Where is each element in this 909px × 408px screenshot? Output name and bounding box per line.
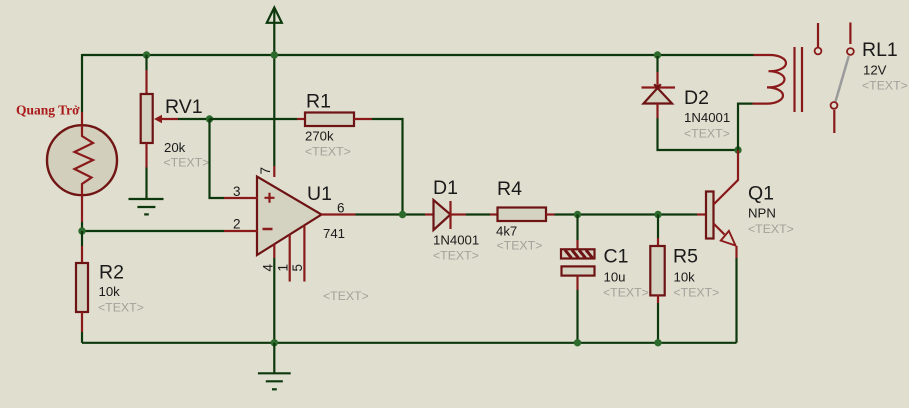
op-amp U1 (224, 166, 356, 282)
svg-text:741: 741 (323, 226, 345, 241)
wire wiper to node B (206, 118, 210, 120)
capacitor C1 (561, 215, 595, 343)
node rail-RV1 (143, 51, 150, 58)
ground bottom (258, 343, 291, 390)
wire pin4 to bottom rail (273, 258, 275, 343)
node collector (734, 146, 741, 153)
svg-text:1: 1 (276, 264, 291, 272)
wire bottom rail (82, 342, 737, 344)
svg-text:1N4001: 1N4001 (684, 110, 730, 125)
wire output to D1 (356, 213, 426, 215)
svg-text:3: 3 (233, 184, 241, 199)
svg-text:<TEXT>: <TEXT> (164, 155, 210, 169)
node rail-power (271, 51, 278, 58)
svg-text:<TEXT>: <TEXT> (433, 249, 479, 263)
svg-text:<TEXT>: <TEXT> (323, 289, 369, 303)
svg-text:NPN: NPN (748, 206, 776, 221)
svg-text:<TEXT>: <TEXT> (684, 127, 730, 141)
svg-text:U1: U1 (307, 183, 332, 205)
wire left drop to LDR (81, 54, 83, 112)
svg-text:<TEXT>: <TEXT> (862, 79, 908, 93)
svg-text:1N4001: 1N4001 (433, 233, 479, 248)
svg-text:2: 2 (233, 217, 241, 232)
wire LDR to node A (81, 222, 83, 231)
node R5 top (654, 211, 661, 218)
svg-text:Quang Trở: Quang Trở (16, 103, 80, 118)
power symbol VCC (267, 8, 282, 56)
diode D2 (642, 56, 739, 150)
resistor R2 (76, 231, 88, 343)
node A (LDR/R2/pin2) (78, 227, 85, 234)
svg-text:C1: C1 (604, 245, 629, 267)
LDR Quang Tro (47, 112, 117, 222)
diode D1 (425, 200, 466, 230)
wire D1 to R4 (466, 213, 490, 215)
resistor R5 (650, 215, 664, 343)
node rail-D2 (654, 51, 661, 58)
svg-text:<TEXT>: <TEXT> (603, 285, 649, 299)
wire pin2 from node A (82, 230, 224, 232)
svg-text:10k: 10k (674, 269, 696, 284)
potentiometer RV1 (141, 55, 206, 168)
wire R1 right to output node (372, 119, 403, 214)
node output (399, 211, 406, 218)
svg-text:6: 6 (337, 201, 345, 216)
svg-text:D1: D1 (433, 177, 458, 199)
svg-text:4k7: 4k7 (496, 224, 517, 239)
svg-text:Q1: Q1 (748, 183, 774, 205)
svg-text:<TEXT>: <TEXT> (748, 222, 794, 236)
svg-text:R5: R5 (673, 245, 698, 267)
resistor R4 (490, 208, 555, 222)
wire top rail (82, 54, 754, 56)
node C1 top (574, 211, 581, 218)
wire pin7 drop (273, 55, 275, 166)
node rail-gnd (271, 339, 278, 346)
ground under RV1 (129, 168, 164, 215)
svg-text:20k: 20k (164, 140, 186, 155)
svg-text:R4: R4 (497, 178, 522, 200)
svg-text:R2: R2 (99, 262, 124, 284)
svg-text:<TEXT>: <TEXT> (98, 301, 144, 315)
node R5 bottom (654, 339, 661, 346)
svg-text:<TEXT>: <TEXT> (674, 285, 720, 299)
svg-text:12V: 12V (863, 63, 887, 78)
svg-text:270k: 270k (305, 129, 334, 144)
svg-text:RV1: RV1 (165, 96, 203, 118)
relay RL1 coil (738, 47, 802, 150)
transistor Q1 (690, 150, 738, 343)
wire R4 to Q1 base (555, 213, 691, 215)
resistor R1 (210, 113, 373, 127)
svg-text:10u: 10u (604, 269, 626, 284)
svg-text:R1: R1 (306, 91, 331, 113)
node B (wiper/R1/pin3) (206, 115, 213, 122)
svg-text:5: 5 (290, 264, 305, 272)
node C1 bottom (574, 339, 581, 346)
svg-text:<TEXT>: <TEXT> (497, 239, 543, 253)
svg-text:RL1: RL1 (862, 39, 898, 61)
svg-text:D2: D2 (684, 87, 709, 109)
svg-text:7: 7 (258, 167, 273, 175)
svg-text:10k: 10k (99, 284, 121, 299)
svg-text:<TEXT>: <TEXT> (305, 145, 351, 159)
relay RL1 contact (815, 23, 854, 134)
wire node B down to pin3 (210, 119, 225, 198)
